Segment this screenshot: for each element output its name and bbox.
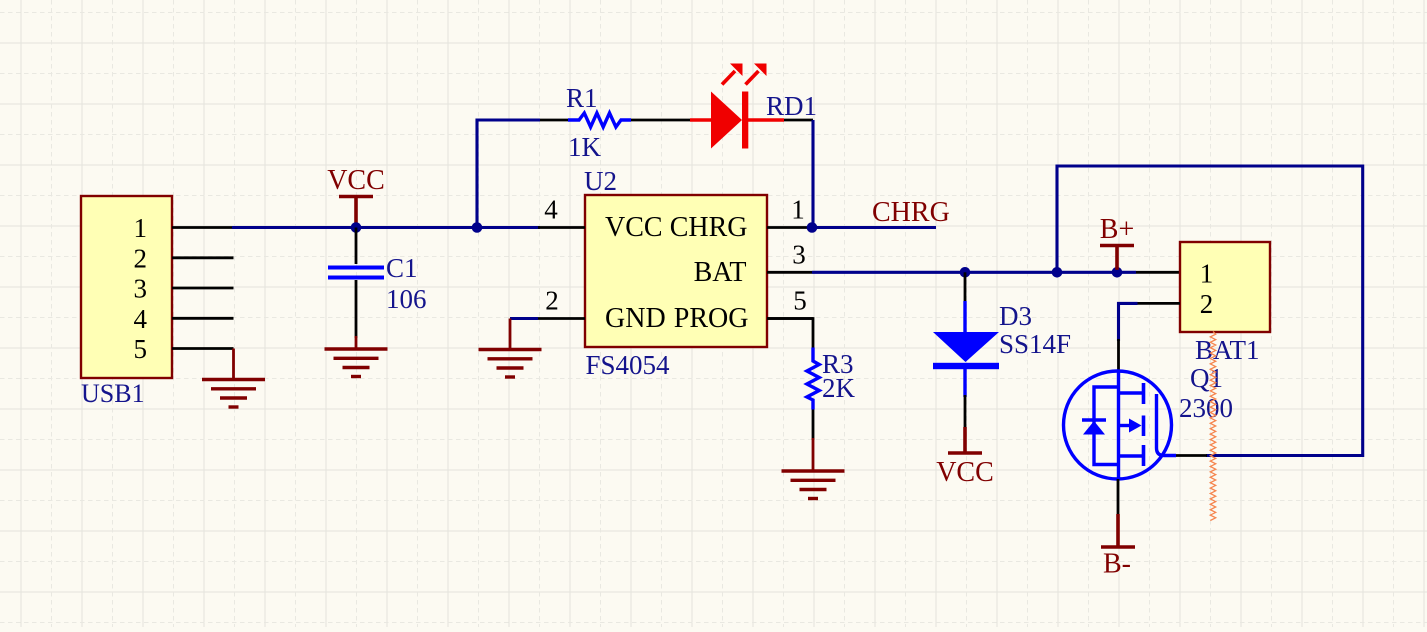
- junction node at B+: [1112, 267, 1123, 278]
- wire CHRG stub: [812, 226, 936, 229]
- svg-text:5: 5: [793, 286, 807, 316]
- svg-text:D3: D3: [999, 301, 1032, 331]
- svg-text:U2: U2: [584, 166, 617, 196]
- power B- stem: [1116, 514, 1120, 547]
- wire loop: branch up and around to Q1 gate: [1057, 166, 1363, 456]
- Q1 top channel branch: [1119, 391, 1143, 394]
- wire BAT rail: [812, 271, 1136, 274]
- svg-text:CHRG: CHRG: [670, 212, 748, 243]
- resistor R1 left lead: [540, 119, 568, 122]
- capacitor C1 plates: [328, 266, 384, 270]
- diode D3 cathode bar: [933, 363, 999, 369]
- svg-text:1: 1: [1200, 259, 1214, 289]
- Q1 body diode triangle: [1083, 421, 1105, 435]
- compile-error zigzag marker: [1210, 332, 1215, 521]
- Q1 gate line: [1157, 394, 1177, 456]
- op-amp U2 body (FS4054): [585, 195, 767, 347]
- Q1 source branch: [1119, 454, 1143, 457]
- svg-text:R1: R1: [566, 83, 598, 113]
- svg-text:SS14F: SS14F: [999, 329, 1071, 359]
- svg-text:2: 2: [545, 286, 559, 316]
- svg-text:1K: 1K: [568, 132, 602, 162]
- svg-text:VCC: VCC: [327, 165, 385, 196]
- svg-text:2: 2: [134, 243, 148, 273]
- power VCC (top) stem: [354, 197, 358, 225]
- D3 bottom lead: [963, 369, 966, 397]
- resistor R1 right lead: [631, 119, 690, 122]
- svg-text:2: 2: [1200, 289, 1214, 319]
- resistor R3 body: [807, 348, 819, 410]
- svg-text:B-: B-: [1103, 549, 1131, 580]
- ground (USB1 pin 5) bars: [202, 378, 265, 381]
- Q1 body diode bar: [1082, 418, 1106, 421]
- svg-text:CHRG: CHRG: [872, 197, 950, 228]
- svg-text:Q1: Q1: [1190, 363, 1223, 393]
- junction node at U2 pin1: [807, 222, 818, 233]
- LED RD1 cathode bar: [742, 92, 748, 149]
- wire C1 bottom lead: [355, 280, 358, 338]
- Q1 gate pin wire: [1176, 454, 1207, 457]
- USB1 pin 2: [172, 256, 234, 259]
- svg-text:106: 106: [386, 284, 427, 314]
- svg-text:5: 5: [134, 334, 148, 364]
- U2 pin 5 (PROG): [767, 317, 813, 320]
- svg-text:BAT1: BAT1: [1195, 335, 1260, 365]
- U2 pin 3 (BAT): [767, 271, 812, 274]
- junction node at VCC/C1: [351, 222, 362, 233]
- ground (R3) bars: [782, 469, 845, 472]
- power B+ bar: [1100, 244, 1134, 247]
- diode D3 triangle: [933, 332, 999, 362]
- USB1 pin 5: [172, 347, 234, 350]
- connector USB1 body: [81, 196, 172, 378]
- D3 top lead: [964, 272, 967, 303]
- LED RD1 left lead: [690, 118, 712, 121]
- svg-text:1: 1: [791, 195, 805, 225]
- svg-text:4: 4: [134, 304, 148, 334]
- svg-text:RD1: RD1: [766, 91, 817, 121]
- junction node at R1 branch: [472, 222, 483, 233]
- junction node at D3: [960, 267, 971, 278]
- svg-text:2K: 2K: [822, 373, 856, 403]
- ground (U2 pin2) bars: [479, 348, 542, 351]
- svg-text:3: 3: [792, 239, 806, 269]
- R3 bottom lead: [812, 410, 815, 441]
- power VCC (under D3) stem: [963, 427, 967, 453]
- LED RD1 triangle: [711, 92, 742, 149]
- ground (U2 pin2) stem: [509, 319, 512, 350]
- wire LED to pin1: [784, 119, 813, 122]
- junction node at loop branch: [1052, 267, 1063, 278]
- wire U2 pin5 to R3: [767, 319, 813, 350]
- wire: up from junction to R1: [477, 120, 540, 228]
- resistor R1 body: [568, 113, 631, 127]
- U2 pin 2 (GND): [538, 317, 585, 320]
- ground (C1) bars: [325, 347, 388, 350]
- ground (USB1 pin 5) stem: [232, 349, 235, 380]
- svg-text:4: 4: [544, 195, 558, 225]
- wire: down from LED to U2 pin1: [811, 120, 814, 228]
- LED RD1 arrow 1: [722, 71, 735, 85]
- transistor Q1 circle: [1064, 371, 1172, 479]
- svg-text:GND: GND: [605, 303, 666, 334]
- BAT1 pin1 wire: [1136, 271, 1180, 274]
- svg-text:FS4054: FS4054: [586, 350, 671, 380]
- Q1 channel dashes: [1142, 383, 1146, 404]
- svg-text:VCC: VCC: [605, 212, 663, 243]
- LED RD1 arrow 2: [746, 71, 759, 85]
- power B+ stem: [1115, 246, 1119, 270]
- svg-text:VCC: VCC: [936, 457, 994, 488]
- power VCC (under D3) bar: [948, 451, 982, 454]
- wire C1 top lead: [355, 228, 358, 265]
- LED RD1 right lead: [748, 118, 784, 121]
- Q1 body-diode branch: [1094, 387, 1119, 465]
- power VCC (top) bar: [339, 195, 373, 198]
- BAT1 pin2 wire to Q1 drain: [1136, 302, 1180, 305]
- Q1 arrow: [1119, 424, 1132, 427]
- ground (C1) stem: [355, 336, 358, 349]
- svg-text:1: 1: [134, 213, 148, 243]
- svg-text:PROG: PROG: [674, 303, 749, 334]
- svg-text:BAT: BAT: [694, 257, 747, 288]
- svg-text:3: 3: [134, 274, 148, 304]
- svg-text:USB1: USB1: [81, 379, 145, 408]
- Q1 central vertical (drain-source): [1117, 371, 1120, 479]
- USB1 pin 1: [172, 226, 234, 229]
- USB1 pin 3: [172, 287, 234, 290]
- svg-text:C1: C1: [386, 253, 418, 283]
- wire U2 pin2 to ground: [510, 317, 538, 320]
- power B- bar: [1101, 545, 1135, 548]
- USB1 pin 4: [172, 317, 234, 320]
- Q1 source bottom lead: [1117, 479, 1120, 516]
- connector BAT1 body: [1180, 242, 1270, 332]
- svg-text:2300: 2300: [1179, 393, 1233, 423]
- U2 pin 1 (CHRG): [767, 226, 812, 229]
- svg-text:B+: B+: [1100, 214, 1134, 245]
- wire: USB1 pin1 to U2 pin4 rail: [232, 226, 540, 229]
- ground (R3) stem: [812, 438, 815, 471]
- U2 pin 4 (VCC): [538, 226, 585, 229]
